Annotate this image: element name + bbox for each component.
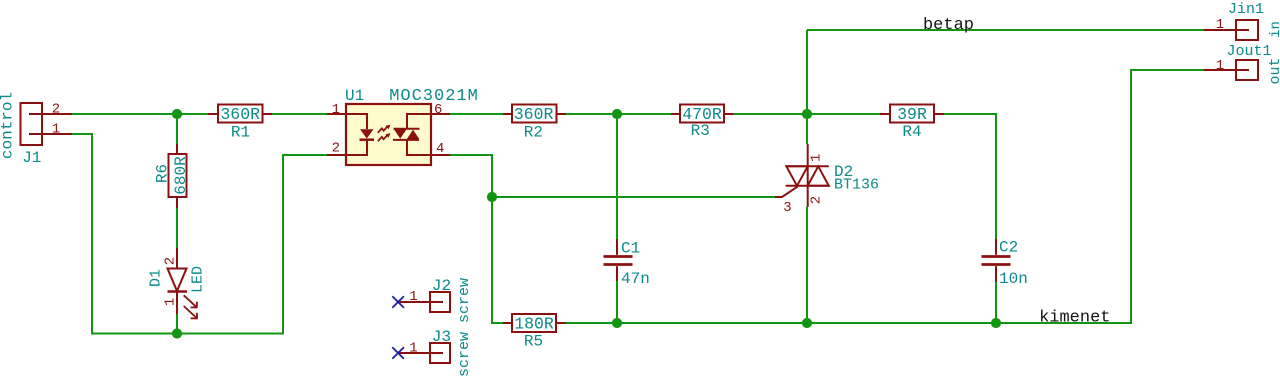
wire R4 to C2 corner <box>943 114 996 239</box>
junction at gate wire <box>487 192 497 202</box>
junction C2 bottom <box>991 318 1001 328</box>
connector Jout1 <box>1204 60 1258 80</box>
triac D2 <box>775 144 829 207</box>
svg-text:out: out <box>1267 57 1280 84</box>
svg-text:1: 1 <box>1216 58 1224 74</box>
svg-text:2: 2 <box>52 102 60 118</box>
svg-text:180R: 180R <box>514 315 554 334</box>
wire triac pin2 down to bottom <box>806 207 808 323</box>
no-connect X at J3 <box>392 347 404 359</box>
resistor R5 <box>503 314 566 332</box>
U1 pin 1 <box>327 113 346 115</box>
wire R2 to R3 <box>566 113 671 115</box>
svg-text:C2: C2 <box>999 239 1018 257</box>
svg-text:1: 1 <box>809 154 825 162</box>
resistor R4 <box>880 105 944 123</box>
U1 internal triac <box>393 114 431 155</box>
resistor R2 <box>503 105 566 123</box>
svg-text:47n: 47n <box>621 270 650 288</box>
wire R1 to U1 pin1 <box>272 113 327 115</box>
resistor R3 <box>671 105 733 123</box>
svg-text:R6: R6 <box>154 164 172 183</box>
svg-text:360R: 360R <box>220 105 260 124</box>
svg-text:3: 3 <box>783 200 791 216</box>
no-connect X at J2 <box>392 296 404 308</box>
svg-text:Jout1: Jout1 <box>1226 43 1271 60</box>
wire junction to C1 <box>616 114 618 239</box>
junction at C1 top <box>612 109 622 119</box>
junction C1 bottom <box>612 318 622 328</box>
U1 internal LED <box>346 114 374 155</box>
junction at R1 left <box>172 109 182 119</box>
U1 pin 2 <box>327 154 346 156</box>
op-amp U1 MOC3021M body <box>346 104 431 165</box>
svg-text:4: 4 <box>436 141 444 157</box>
junction at triac top <box>802 109 812 119</box>
svg-text:BT136: BT136 <box>834 177 879 194</box>
svg-text:LED: LED <box>190 266 207 293</box>
resistor R6 <box>169 144 187 208</box>
svg-text:39R: 39R <box>897 105 927 124</box>
connector J3 <box>398 343 450 363</box>
svg-text:C1: C1 <box>621 240 640 258</box>
svg-text:360R: 360R <box>514 105 554 124</box>
svg-text:R3: R3 <box>691 122 710 140</box>
wire main horizontal y=114 J1 to R1 <box>72 113 209 115</box>
svg-text:1: 1 <box>332 102 340 118</box>
svg-text:screw: screw <box>456 278 473 323</box>
svg-text:1: 1 <box>52 122 60 138</box>
svg-text:MOC3021M: MOC3021M <box>389 87 479 106</box>
svg-text:J3: J3 <box>432 328 451 346</box>
svg-text:R5: R5 <box>524 333 543 351</box>
U1 pin 4 <box>431 154 450 156</box>
svg-text:2: 2 <box>809 196 825 204</box>
wire C2 bottom to kimenet <box>995 282 997 323</box>
svg-text:10n: 10n <box>999 270 1028 288</box>
svg-text:680R: 680R <box>172 156 190 195</box>
wire gate horizontal y=197 <box>492 196 775 198</box>
svg-text:screw: screw <box>456 332 473 377</box>
svg-text:control: control <box>0 92 17 159</box>
svg-text:Jin1: Jin1 <box>1228 1 1264 18</box>
svg-text:D1: D1 <box>148 269 165 287</box>
capacitor C2 <box>982 239 1011 282</box>
wire U1 pin6 to R2 <box>450 113 504 115</box>
svg-text:1: 1 <box>162 298 178 306</box>
svg-text:2: 2 <box>162 257 178 265</box>
svg-text:kimenet: kimenet <box>1039 309 1110 328</box>
wire bottom kimenet to Jout1 <box>566 70 1204 323</box>
svg-text:U1: U1 <box>345 87 364 105</box>
U1 photon arrow 1 <box>378 125 391 133</box>
D1 emission arrow 2 <box>184 306 198 318</box>
wire C1 to bottom <box>616 281 618 323</box>
svg-text:470R: 470R <box>682 105 722 124</box>
capacitor C1 <box>604 239 633 281</box>
wire J1 pin1 down around <box>72 134 327 334</box>
connector J1 <box>21 103 73 145</box>
LED D1 <box>168 248 188 314</box>
svg-text:1: 1 <box>409 341 417 357</box>
wire betap down to junction and triac <box>806 30 808 144</box>
svg-text:J2: J2 <box>432 277 451 295</box>
U1 pin 6 <box>431 113 450 115</box>
wire R3 to R4 <box>733 113 881 115</box>
svg-text:J1: J1 <box>22 149 41 167</box>
wire R6 to D1 <box>176 208 178 248</box>
resistor R1 <box>208 105 272 123</box>
svg-text:R1: R1 <box>231 124 250 142</box>
wire junction to R6 <box>176 114 178 144</box>
junction below D1 <box>172 328 182 338</box>
svg-text:1: 1 <box>1216 17 1224 33</box>
svg-text:betap: betap <box>923 16 974 35</box>
svg-text:R4: R4 <box>902 123 921 141</box>
D1 emission arrow 1 <box>184 295 198 307</box>
svg-text:2: 2 <box>332 141 340 157</box>
junction triac bottom <box>802 318 812 328</box>
svg-text:1: 1 <box>409 289 417 305</box>
U1 photon arrow 2 <box>378 133 391 141</box>
connector J2 <box>398 292 450 312</box>
svg-text:in: in <box>1268 21 1280 38</box>
connector Jin1 <box>1204 20 1258 40</box>
wire U1 pin4 down to R5 <box>450 155 503 323</box>
wire D1 to bottom left <box>176 314 178 334</box>
svg-text:R2: R2 <box>524 124 543 142</box>
wire betap horizontal <box>807 29 1204 31</box>
